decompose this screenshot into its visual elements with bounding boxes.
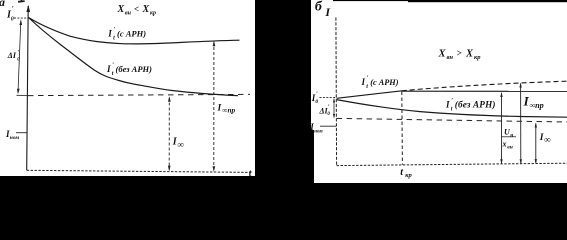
dashed level line Ioo (a) — [28, 94, 250, 95]
svg-text:(без АРН): (без АРН) — [455, 99, 496, 109]
svg-text:I: I — [106, 64, 111, 74]
curve I't with ARN (a) — [29, 18, 240, 44]
lower curve I't bez ARN (b) — [337, 100, 567, 118]
dimension line Ioopr (b) — [501, 93, 503, 163]
y-axis (b) — [335, 18, 338, 166]
horizontal limited-current line Ioopr (b) — [402, 90, 567, 92]
svg-text:вн: вн — [507, 145, 513, 151]
dashed level line (b) — [337, 118, 567, 122]
dimension line Ioo (b) — [535, 124, 537, 164]
upper curve I't s ARN solid part (b) — [337, 91, 402, 99]
dashed tick I'0 to axis (b) — [320, 96, 337, 98]
tick Inom to axis (a) — [16, 132, 27, 134]
svg-text:∞: ∞ — [544, 135, 550, 145]
dashed level line I'0 (a) — [14, 17, 29, 19]
svg-text:вн: вн — [447, 54, 454, 61]
svg-text:Х: Х — [142, 4, 150, 15]
dimension line dI'0 (a) — [18, 21, 21, 94]
svg-text:вн: вн — [125, 11, 132, 17]
y-axis arrow (a) — [26, 5, 30, 12]
dimension line Ioo (a) — [168, 98, 170, 171]
svg-text:I: I — [107, 28, 112, 38]
upper curve dashed continuation (b) — [402, 81, 567, 91]
bottom-left sliver of gap — [311, 130, 314, 183]
top edge black strip thick — [408, 0, 567, 2]
label I (ordinate, cut at top) — [18, 0, 25, 3]
svg-text:(с АРН): (с АРН) — [117, 28, 146, 38]
x-axis (a) — [27, 170, 253, 172]
svg-text:0: 0 — [11, 16, 14, 22]
svg-text:ном: ном — [10, 135, 20, 141]
y-axis (a) — [27, 6, 29, 170]
svg-text:ном: ном — [314, 129, 323, 134]
curve I't without ARN (a) — [29, 18, 239, 96]
svg-text:′: ′ — [112, 61, 114, 68]
svg-text:∞: ∞ — [177, 140, 183, 150]
svg-text:н: н — [510, 133, 513, 139]
svg-text:t: t — [249, 169, 252, 179]
svg-text:Х: Х — [465, 49, 474, 60]
svg-text:кр: кр — [150, 11, 156, 17]
svg-text:ΔI: ΔI — [7, 51, 17, 60]
svg-text:′: ′ — [451, 97, 453, 104]
svg-text:I: I — [217, 103, 222, 113]
svg-text:а: а — [0, 0, 5, 9]
svg-text:>: > — [457, 48, 462, 58]
dimension line Un/xvn (b) — [520, 84, 522, 164]
svg-text:(без АРН): (без АРН) — [116, 64, 153, 74]
svg-text:′: ′ — [367, 75, 369, 82]
t_kr dashed vertical (b) — [401, 92, 404, 165]
svg-text:∞пр: ∞пр — [529, 101, 543, 110]
svg-text:б: б — [315, 0, 323, 14]
svg-text:<: < — [134, 4, 139, 14]
tick Inom to axis (b) — [320, 125, 336, 127]
x-axis (b) — [337, 163, 567, 165]
svg-text:Х: Х — [438, 49, 447, 60]
svg-text:0: 0 — [315, 99, 318, 105]
short tick at Ioo level left of axis (a) — [17, 94, 29, 96]
svg-text:′: ′ — [114, 26, 116, 33]
svg-text:I: I — [361, 77, 366, 87]
svg-text:′: ′ — [12, 5, 14, 13]
svg-text:I: I — [445, 99, 450, 109]
panel b white background — [311, 0, 567, 183]
dimension arrows dI'0 (b) — [333, 99, 335, 118]
svg-text:кр: кр — [405, 172, 412, 179]
svg-text:кр: кр — [474, 54, 481, 61]
svg-text:(с АРН): (с АРН) — [370, 78, 399, 87]
svg-text:Х: Х — [117, 4, 125, 15]
panel a white background — [0, 0, 255, 176]
dimension line Ioopr (a) — [213, 42, 215, 171]
top edge black strip thin — [333, 0, 567, 1]
svg-text:x: x — [502, 140, 507, 149]
svg-text:∞пр: ∞пр — [222, 106, 235, 115]
